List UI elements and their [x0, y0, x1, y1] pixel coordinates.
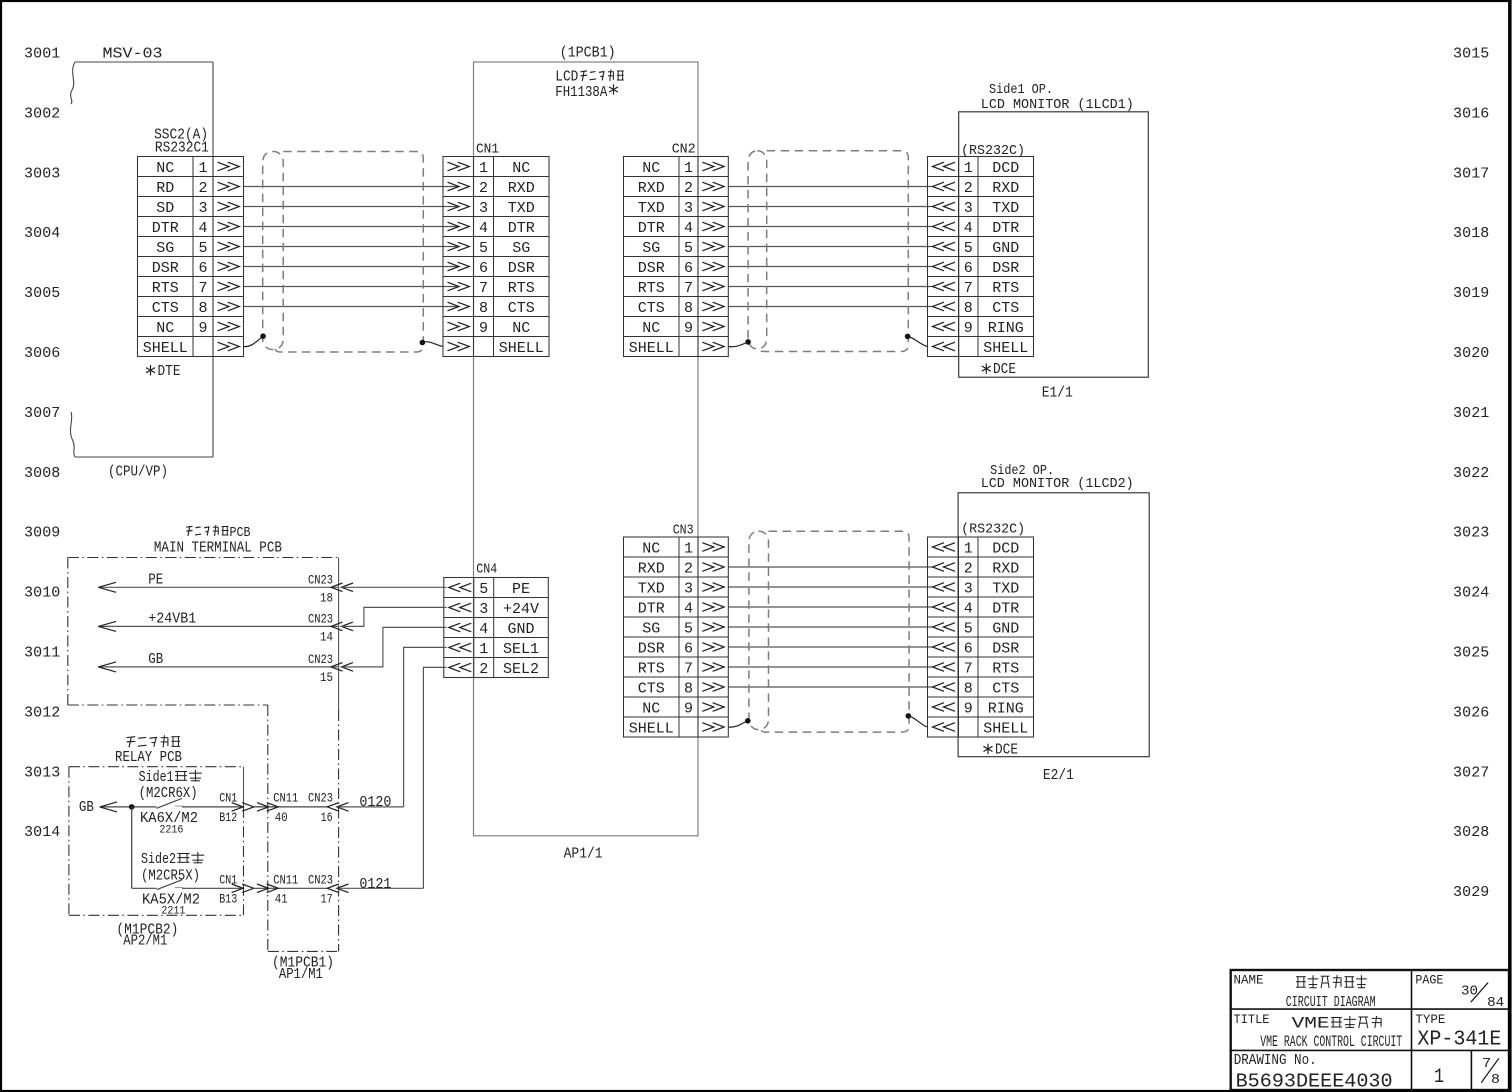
svg-text:CN11: CN11 [273, 872, 298, 887]
svg-text:3008: 3008 [24, 465, 60, 482]
svg-text:2: 2 [479, 661, 488, 678]
svg-text:3006: 3006 [24, 345, 60, 362]
svg-text:XP-341E: XP-341E [1417, 1028, 1501, 1051]
svg-text:TXD: TXD [638, 580, 665, 597]
svg-text:CN23: CN23 [308, 791, 333, 806]
svg-text:2211: 2211 [161, 906, 185, 918]
svg-text:3003: 3003 [24, 165, 60, 182]
svg-text:(RS232C): (RS232C) [961, 143, 1025, 159]
svg-text:SHELL: SHELL [499, 340, 544, 357]
svg-text:3: 3 [684, 580, 693, 597]
svg-text:DSR: DSR [992, 260, 1019, 277]
svg-text:2: 2 [964, 560, 973, 577]
svg-text:GB: GB [148, 651, 163, 668]
svg-text:CN1: CN1 [219, 791, 237, 806]
svg-text:3013: 3013 [24, 764, 60, 781]
svg-text:SG: SG [642, 240, 660, 257]
svg-text:8: 8 [479, 300, 488, 317]
svg-text:2: 2 [964, 180, 973, 197]
svg-text:Side1: Side1 [139, 769, 174, 786]
svg-text:RXD: RXD [638, 560, 665, 577]
svg-text:2: 2 [684, 180, 693, 197]
svg-text:DCD: DCD [992, 540, 1019, 557]
svg-text:CTS: CTS [638, 300, 665, 317]
svg-text:RING: RING [988, 700, 1024, 717]
svg-text:6: 6 [684, 640, 693, 657]
svg-text:7: 7 [964, 280, 973, 297]
svg-text:NC: NC [642, 320, 660, 337]
svg-text:DTR: DTR [152, 220, 179, 237]
svg-text:9: 9 [479, 320, 488, 337]
svg-text:NC: NC [642, 540, 660, 557]
svg-text:DTR: DTR [638, 600, 665, 617]
svg-text:5: 5 [684, 240, 693, 257]
svg-text:VME RACK CONTROL CIRCUIT: VME RACK CONTROL CIRCUIT [1260, 1033, 1402, 1051]
svg-text:4: 4 [198, 220, 207, 237]
svg-text:6: 6 [964, 640, 973, 657]
svg-text:DTR: DTR [992, 220, 1019, 237]
svg-text:3: 3 [479, 200, 488, 217]
svg-text:3: 3 [198, 200, 207, 217]
svg-text:3011: 3011 [24, 645, 60, 662]
svg-text:2: 2 [684, 560, 693, 577]
svg-text:SHELL: SHELL [983, 340, 1028, 357]
svg-text:7: 7 [1482, 1056, 1491, 1072]
svg-text:3028: 3028 [1453, 824, 1489, 841]
svg-text:FH1138A: FH1138A [555, 84, 607, 101]
svg-text:3029: 3029 [1453, 884, 1489, 901]
svg-text:2: 2 [479, 180, 488, 197]
svg-text:LCD MONITOR (1LCD2): LCD MONITOR (1LCD2) [981, 476, 1134, 492]
svg-text:MSV-03: MSV-03 [103, 46, 163, 63]
svg-text:DTR: DTR [992, 600, 1019, 617]
svg-text:3023: 3023 [1453, 525, 1489, 542]
svg-text:6: 6 [479, 260, 488, 277]
svg-text:1: 1 [684, 540, 693, 557]
svg-text:9: 9 [684, 320, 693, 337]
svg-text:E2/1: E2/1 [1043, 767, 1074, 784]
svg-text:9: 9 [964, 700, 973, 717]
svg-text:SHELL: SHELL [629, 340, 674, 357]
svg-text:5: 5 [964, 620, 973, 637]
svg-text:7: 7 [964, 660, 973, 677]
svg-text:9: 9 [964, 320, 973, 337]
svg-text:E1/1: E1/1 [1042, 384, 1073, 401]
svg-text:RD: RD [156, 180, 174, 197]
svg-text:6: 6 [198, 260, 207, 277]
svg-text:CN4: CN4 [476, 562, 497, 578]
svg-text:B5693DEEE4030: B5693DEEE4030 [1236, 1071, 1393, 1092]
svg-text:3018: 3018 [1453, 225, 1489, 242]
svg-text:+24V: +24V [503, 601, 539, 618]
svg-text:3: 3 [964, 200, 973, 217]
svg-text:SHELL: SHELL [983, 720, 1028, 737]
svg-text:8: 8 [964, 680, 973, 697]
svg-text:SHELL: SHELL [629, 720, 674, 737]
svg-text:NC: NC [156, 160, 174, 177]
svg-text:CTS: CTS [992, 300, 1019, 317]
svg-text:CIRCUIT DIAGRAM: CIRCUIT DIAGRAM [1286, 994, 1376, 1011]
svg-text:SG: SG [642, 620, 660, 637]
svg-text:5: 5 [684, 620, 693, 637]
svg-text:DCE: DCE [995, 742, 1018, 759]
svg-text:2216: 2216 [159, 824, 183, 836]
svg-text:40: 40 [275, 810, 288, 825]
svg-text:4: 4 [684, 220, 693, 237]
svg-text:5: 5 [198, 240, 207, 257]
svg-text:B12: B12 [219, 810, 237, 825]
svg-text:VME: VME [1292, 1015, 1330, 1033]
svg-text:GND: GND [992, 620, 1019, 637]
svg-text:7: 7 [479, 280, 488, 297]
svg-text:DTR: DTR [508, 220, 535, 237]
svg-text:RTS: RTS [152, 280, 179, 297]
svg-text:LCD MONITOR (1LCD1): LCD MONITOR (1LCD1) [981, 97, 1134, 113]
svg-text:Side1 OP.: Side1 OP. [989, 82, 1053, 98]
svg-text:CN11: CN11 [273, 791, 298, 806]
svg-text:3007: 3007 [24, 405, 60, 422]
svg-text:RXD: RXD [508, 180, 535, 197]
svg-text:3009: 3009 [24, 525, 60, 542]
svg-text:+24VB1: +24VB1 [148, 611, 196, 628]
svg-text:Side2: Side2 [141, 851, 176, 868]
svg-text:8: 8 [684, 680, 693, 697]
svg-text:4: 4 [479, 220, 488, 237]
svg-text:PE: PE [512, 581, 530, 598]
svg-text:RTS: RTS [638, 280, 665, 297]
svg-text:3025: 3025 [1453, 645, 1489, 662]
svg-text:7: 7 [684, 660, 693, 677]
svg-text:CN2: CN2 [672, 142, 696, 158]
svg-text:3019: 3019 [1453, 285, 1489, 302]
svg-text:1: 1 [479, 160, 488, 177]
svg-text:4: 4 [479, 621, 488, 638]
svg-text:9: 9 [684, 700, 693, 717]
svg-text:TITLE: TITLE [1234, 1012, 1270, 1027]
svg-text:TXD: TXD [638, 200, 665, 217]
svg-text:NC: NC [642, 700, 660, 717]
svg-text:3020: 3020 [1453, 345, 1489, 362]
svg-text:1: 1 [964, 540, 973, 557]
svg-text:RXD: RXD [638, 180, 665, 197]
svg-text:(M2CR6X): (M2CR6X) [139, 785, 198, 802]
svg-text:5: 5 [479, 581, 488, 598]
svg-text:3024: 3024 [1453, 585, 1489, 602]
svg-text:9: 9 [198, 320, 207, 337]
svg-text:DTE: DTE [158, 363, 181, 380]
svg-text:1: 1 [198, 160, 207, 177]
svg-text:(RS232C): (RS232C) [961, 521, 1025, 537]
svg-text:84: 84 [1487, 995, 1504, 1011]
svg-text:8: 8 [198, 300, 207, 317]
svg-text:DSR: DSR [638, 260, 665, 277]
svg-text:GND: GND [992, 240, 1019, 257]
svg-text:GB: GB [79, 799, 94, 816]
svg-text:TXD: TXD [992, 580, 1019, 597]
svg-text:4: 4 [964, 600, 973, 617]
svg-text:RELAY PCB: RELAY PCB [115, 749, 182, 766]
svg-text:2: 2 [198, 180, 207, 197]
svg-text:NC: NC [512, 320, 530, 337]
svg-text:LCD: LCD [555, 69, 578, 86]
svg-text:CTS: CTS [508, 300, 535, 317]
svg-text:RS232C1: RS232C1 [155, 139, 209, 156]
svg-text:3002: 3002 [24, 105, 60, 122]
svg-text:CN1: CN1 [219, 872, 237, 887]
svg-text:3012: 3012 [24, 704, 60, 721]
svg-text:1: 1 [684, 160, 693, 177]
svg-text:1: 1 [479, 641, 488, 658]
svg-text:NC: NC [512, 160, 530, 177]
svg-text:CN23: CN23 [308, 573, 333, 588]
svg-text:3: 3 [684, 200, 693, 217]
svg-text:NAME: NAME [1234, 973, 1264, 988]
svg-text:3015: 3015 [1453, 46, 1489, 63]
svg-text:TXD: TXD [992, 200, 1019, 217]
svg-text:3027: 3027 [1453, 764, 1489, 781]
svg-text:15: 15 [320, 670, 333, 685]
svg-text:MAIN TERMINAL PCB: MAIN TERMINAL PCB [154, 539, 282, 556]
svg-text:AP1/1: AP1/1 [564, 846, 603, 863]
svg-text:17: 17 [321, 892, 333, 907]
svg-text:DSR: DSR [992, 640, 1019, 657]
svg-text:5: 5 [479, 240, 488, 257]
svg-text:3001: 3001 [24, 46, 60, 63]
svg-text:SD: SD [156, 200, 174, 217]
svg-text:SHELL: SHELL [143, 340, 188, 357]
svg-text:PAGE: PAGE [1415, 973, 1443, 988]
svg-text:RTS: RTS [992, 660, 1019, 677]
svg-text:6: 6 [964, 260, 973, 277]
svg-text:8: 8 [684, 300, 693, 317]
svg-text:RXD: RXD [992, 180, 1019, 197]
svg-text:RTS: RTS [638, 660, 665, 677]
svg-text:AP2/M1: AP2/M1 [123, 932, 167, 949]
svg-text:1: 1 [1434, 1066, 1444, 1089]
svg-text:SG: SG [512, 240, 530, 257]
svg-text:8: 8 [1491, 1072, 1500, 1088]
svg-text:5: 5 [964, 240, 973, 257]
svg-text:SEL1: SEL1 [503, 641, 539, 658]
svg-text:RXD: RXD [992, 560, 1019, 577]
svg-text:3: 3 [964, 580, 973, 597]
svg-text:CN3: CN3 [673, 523, 694, 539]
svg-text:AP1/M1: AP1/M1 [279, 966, 323, 983]
svg-text:0120: 0120 [359, 794, 391, 811]
svg-text:3016: 3016 [1453, 105, 1489, 122]
svg-text:3010: 3010 [24, 585, 60, 602]
svg-text:3017: 3017 [1453, 165, 1489, 182]
svg-text:TXD: TXD [508, 200, 535, 217]
svg-text:NC: NC [642, 160, 660, 177]
svg-text:4: 4 [684, 600, 693, 617]
svg-text:3026: 3026 [1453, 704, 1489, 721]
svg-text:41: 41 [275, 892, 288, 907]
svg-text:RING: RING [988, 320, 1024, 337]
svg-text:(M2CR5X): (M2CR5X) [141, 867, 200, 884]
svg-text:DSR: DSR [638, 640, 665, 657]
svg-text:14: 14 [320, 630, 333, 645]
svg-text:DSR: DSR [508, 260, 535, 277]
svg-text:CTS: CTS [638, 680, 665, 697]
svg-text:7: 7 [198, 280, 207, 297]
svg-text:3004: 3004 [24, 225, 60, 242]
svg-text:1: 1 [964, 160, 973, 177]
svg-text:DSR: DSR [152, 260, 179, 277]
svg-text:DCE: DCE [993, 361, 1016, 378]
svg-text:(1PCB1): (1PCB1) [560, 45, 616, 62]
svg-text:PE: PE [148, 572, 163, 589]
svg-text:8: 8 [964, 300, 973, 317]
svg-text:(CPU/VP): (CPU/VP) [108, 463, 168, 480]
svg-text:CN23: CN23 [308, 652, 333, 667]
svg-text:RTS: RTS [508, 280, 535, 297]
svg-text:DRAWING No.: DRAWING No. [1234, 1052, 1317, 1069]
svg-text:6: 6 [684, 260, 693, 277]
svg-text:CN23: CN23 [308, 872, 333, 887]
svg-text:18: 18 [320, 591, 333, 606]
svg-text:3022: 3022 [1453, 465, 1489, 482]
svg-text:3005: 3005 [24, 285, 60, 302]
svg-text:3: 3 [479, 601, 488, 618]
svg-text:B13: B13 [219, 892, 237, 907]
svg-text:DCD: DCD [992, 160, 1019, 177]
svg-text:SEL2: SEL2 [503, 661, 539, 678]
svg-text:NC: NC [156, 320, 174, 337]
svg-text:CN23: CN23 [308, 612, 333, 627]
svg-text:0121: 0121 [359, 876, 391, 893]
svg-text:3021: 3021 [1453, 405, 1489, 422]
svg-text:TYPE: TYPE [1415, 1012, 1445, 1027]
svg-text:4: 4 [964, 220, 973, 237]
svg-text:CN1: CN1 [476, 142, 499, 158]
svg-text:SG: SG [156, 240, 174, 257]
svg-text:3014: 3014 [24, 824, 60, 841]
svg-text:DTR: DTR [638, 220, 665, 237]
svg-text:CTS: CTS [992, 680, 1019, 697]
svg-text:CTS: CTS [152, 300, 179, 317]
svg-text:7: 7 [684, 280, 693, 297]
svg-text:RTS: RTS [992, 280, 1019, 297]
svg-text:GND: GND [507, 621, 534, 638]
svg-text:16: 16 [321, 810, 333, 825]
